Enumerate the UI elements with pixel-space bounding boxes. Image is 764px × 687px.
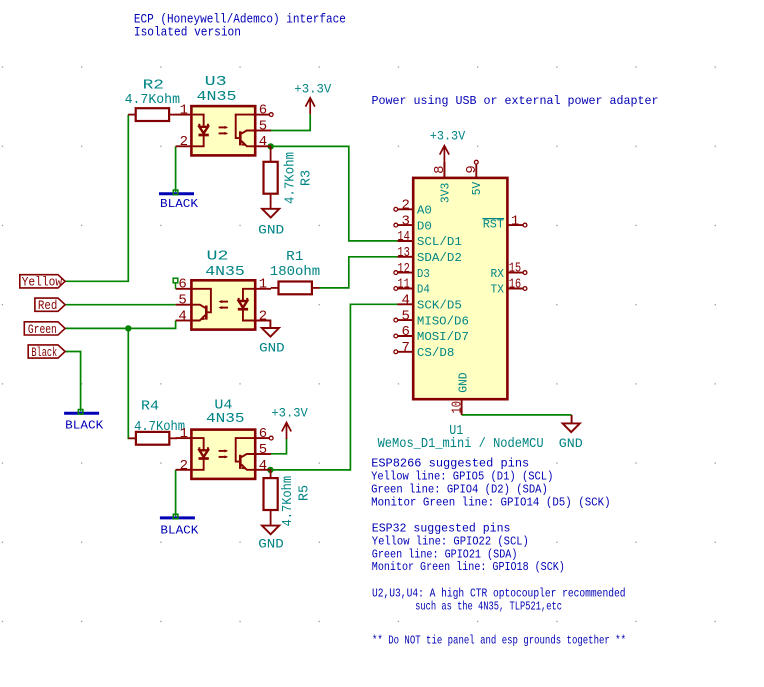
svg-text:2: 2 [180,458,188,474]
wire U3 pin5 to +3.3V [271,114,310,130]
ground at ESP [559,415,583,451]
svg-text:Green line: GPIO21 (SDA): Green line: GPIO21 (SDA) [372,547,518,561]
wire R1 to ESP SDA/D2 [319,257,397,288]
svg-text:3: 3 [401,213,409,229]
svg-text:GND: GND [258,223,284,237]
svg-text:+3.3V: +3.3V [430,130,466,144]
svg-text:180ohm: 180ohm [270,264,320,280]
svg-text:6: 6 [178,277,186,293]
svg-text:13: 13 [397,245,410,261]
svg-text:1: 1 [259,277,267,293]
junction U4 pin4 [267,467,273,473]
svg-text:5: 5 [178,293,186,309]
svg-text:15: 15 [509,261,522,277]
svg-text:such as the 4N35, TLP521,etc: such as the 4N35, TLP521,etc [415,600,562,614]
svg-text:Green: Green [28,322,57,337]
svg-text:D0: D0 [417,219,432,233]
svg-text:GND: GND [559,437,583,451]
svg-text:3V3: 3V3 [438,183,452,203]
wire U4 pin2 to BLACK bar 3 [175,470,177,516]
svg-text:4N35: 4N35 [206,411,245,427]
svg-text:10: 10 [449,401,465,414]
node Green hierarchical label [24,322,65,337]
wire U4 pin4 to ESP SCK/D5 [270,304,397,470]
svg-text:+3.3V: +3.3V [294,82,331,96]
svg-text:1: 1 [511,213,519,229]
svg-text:WeMos_D1_mini / NodeMCU: WeMos_D1_mini / NodeMCU [378,436,544,452]
wire ESP GND pin to GND symbol [462,414,572,416]
note ESP32 block [372,522,565,575]
svg-text:CS/D8: CS/D8 [417,346,455,360]
svg-text:4.7Kohm: 4.7Kohm [280,476,296,527]
resistor R3 [264,146,315,208]
wire Green junction down to R4 [128,328,136,438]
svg-text:4: 4 [178,308,186,324]
svg-text:7: 7 [401,340,409,356]
svg-text:D4: D4 [417,283,430,297]
wire U4 pin5 to +3.3V [271,438,287,454]
note optocoupler recommendation [372,587,626,614]
svg-text:Yellow line: GPIO5 (D1) (SCL): Yellow line: GPIO5 (D1) (SCL) [371,470,553,484]
svg-text:Monitor Green line: GPIO14 (D5: Monitor Green line: GPIO14 (D5) (SCK) [371,495,610,509]
svg-text:9: 9 [464,165,480,173]
svg-text:1: 1 [180,426,188,442]
top pins 3V3 5V [443,162,445,178]
svg-text:2: 2 [180,134,188,150]
svg-text:SCK/D5: SCK/D5 [417,299,462,313]
svg-text:R3: R3 [298,170,314,186]
svg-text:Green line: GPIO4 (D2) (SDA): Green line: GPIO4 (D2) (SDA) [371,482,548,496]
U2 pin6 dangling square [173,278,178,283]
note ESP8266 block [371,457,610,510]
svg-text:BLACK: BLACK [160,197,199,211]
wire Green label to U2 pin4 [65,321,176,329]
resistor R1 [270,249,320,294]
ground at R5 [258,526,284,552]
ground at R3 [258,209,284,238]
svg-text:BLACK: BLACK [160,524,199,538]
svg-text:2: 2 [401,198,409,214]
svg-text:MISO/D6: MISO/D6 [417,314,469,328]
svg-text:Yellow: Yellow [22,275,63,290]
BLACK ground bar 3 [160,514,199,537]
svg-text:U3: U3 [205,74,227,90]
op-amp U4 optocoupler 4N35 [176,398,274,479]
svg-text:16: 16 [509,277,522,293]
svg-text:R2: R2 [143,78,164,94]
BLACK ground bar 1 [159,190,199,211]
svg-text:ECP (Honeywell/Ademco) interfa: ECP (Honeywell/Ademco) interface [134,13,346,27]
svg-text:ESP32 suggested pins: ESP32 suggested pins [372,522,511,536]
svg-text:A0: A0 [417,204,432,218]
svg-text:12: 12 [397,261,410,277]
svg-text:Red: Red [38,298,58,313]
node Yellow hierarchical label [20,275,65,290]
svg-text:BLACK: BLACK [65,418,104,432]
svg-text:Yellow line: GPIO22 (SCL): Yellow line: GPIO22 (SCL) [372,534,529,548]
op-amp U3 optocoupler 4N35 [176,74,274,155]
svg-text:GND: GND [258,537,284,551]
svg-text:4: 4 [259,458,267,474]
resistor R5 [264,470,313,527]
svg-text:TX: TX [491,283,505,297]
svg-text:1: 1 [180,103,188,119]
svg-text:Monitor Green line: GPIO18 (SC: Monitor Green line: GPIO18 (SCK) [372,560,565,574]
svg-text:R4: R4 [141,398,159,414]
svg-text:Black: Black [31,345,57,360]
wire U3 pin2 to BLACK bar 1 [175,146,177,192]
svg-text:MOSI/D7: MOSI/D7 [417,330,469,344]
svg-text:Power using USB or external po: Power using USB or external power adapte… [372,94,659,108]
svg-text:14: 14 [397,229,410,245]
power +3.3V at U3 [294,82,331,114]
svg-text:8: 8 [432,165,448,173]
op-amp U2 optocoupler 4N35 mirrored [173,249,271,330]
svg-text:4.7Kohm: 4.7Kohm [283,152,299,204]
svg-text:GND: GND [457,372,471,392]
wire U3 pin4 to ESP SCL/D1 [271,146,398,241]
svg-text:SCL/D1: SCL/D1 [417,235,462,249]
svg-text:Isolated version: Isolated version [134,26,241,40]
svg-text:5: 5 [401,308,409,324]
svg-text:5: 5 [259,442,267,458]
svg-text:R5: R5 [296,485,312,501]
wire Yellow label to R2 [65,115,128,282]
IC U1 WeMos D1 mini / NodeMCU [378,160,544,452]
resistor R4 [128,398,185,444]
resistor R2 [125,78,180,121]
svg-text:4N35: 4N35 [205,264,245,280]
svg-text:4.7Kohm: 4.7Kohm [134,419,185,435]
svg-text:6: 6 [259,426,267,442]
svg-text:4.7Kohm: 4.7Kohm [125,92,180,108]
svg-text:6: 6 [259,103,267,119]
svg-text:R1: R1 [286,249,303,265]
svg-text:RX: RX [491,267,505,281]
svg-text:D3: D3 [417,267,430,281]
svg-text:GND: GND [259,342,285,356]
svg-text:4: 4 [259,134,267,150]
junction U3 pin4 [268,143,274,149]
svg-text:U2,U3,U4: A high CTR optocoupl: U2,U3,U4: A high CTR optocoupler recomme… [372,587,626,601]
bottom pin GND [461,399,463,415]
svg-text:4N35: 4N35 [197,89,237,105]
right pins RST RX TX [507,224,523,226]
ground at U2 pin2 [255,321,284,356]
svg-text:** Do NOT tie panel and esp gr: ** Do NOT tie panel and esp grounds toge… [372,633,626,647]
BLACK ground bar 2 [64,410,104,433]
svg-text:RST: RST [483,218,504,232]
svg-text:6: 6 [401,324,409,340]
wire Red label to U2 pin5 [65,304,176,306]
junction Green wire [125,325,131,331]
node Black hierarchical label [28,345,65,360]
power +3.3V at U4 [271,407,308,439]
svg-text:5V: 5V [470,181,484,195]
svg-text:2: 2 [259,308,267,324]
unconnected pin circles [394,160,527,353]
svg-text:11: 11 [397,277,410,293]
wire Black label down to BLACK bar 2 [65,352,81,412]
svg-text:ESP8266 suggested pins: ESP8266 suggested pins [371,457,529,471]
node Red hierarchical label [35,298,65,313]
svg-text:SDA/D2: SDA/D2 [417,251,462,265]
svg-text:5: 5 [259,118,267,134]
svg-text:U2: U2 [207,249,229,265]
power +3.3V at ESP [430,130,466,178]
svg-text:4: 4 [401,293,409,309]
svg-text:+3.3V: +3.3V [271,407,308,421]
